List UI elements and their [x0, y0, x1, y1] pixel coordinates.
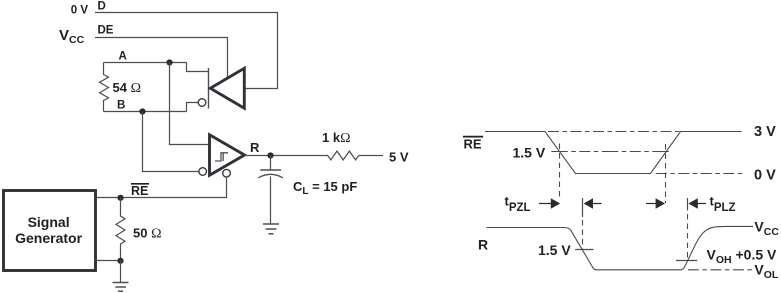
svg-text:DE: DE — [98, 25, 114, 37]
wire generator top output — [95, 197, 121, 199]
svg-text:0 V: 0 V — [754, 168, 776, 184]
arrow left at R fall — [584, 198, 593, 209]
waveform R — [487, 226, 754, 269]
svg-text:tPLZ: tPLZ — [710, 193, 736, 214]
junction dot on B — [139, 108, 145, 114]
driver output bar — [208, 68, 210, 109]
dashed vertical at RE rise crossing — [665, 144, 667, 203]
svg-text:1.5 V: 1.5 V — [538, 242, 571, 258]
junction dot R node — [267, 152, 273, 158]
junction dot ground node — [117, 258, 123, 264]
svg-text:VOL: VOL — [754, 262, 779, 282]
svg-text:RE: RE — [131, 184, 148, 198]
junction dot on A — [166, 59, 172, 65]
svg-text:3 V: 3 V — [754, 124, 776, 140]
wire driver output A stub — [187, 63, 209, 72]
svg-text:CL = 15 pF: CL = 15 pF — [293, 179, 357, 197]
svg-text:RE: RE — [464, 136, 482, 151]
capacitor CL bottom lead — [270, 177, 272, 225]
driver inverted output bubble — [198, 99, 206, 107]
receiver U2 triangle — [210, 135, 245, 175]
wire RE to enable — [121, 177, 227, 198]
level line 0V dash-dot — [656, 173, 744, 175]
svg-text:5 V: 5 V — [389, 150, 409, 165]
bar at R rise + arrow left + label tPLZ — [687, 198, 689, 211]
level line 3V dash-dot — [548, 131, 683, 133]
ground at generator — [120, 261, 122, 283]
dash-dot vertical at R rise crossing — [687, 214, 689, 261]
hysteresis symbol — [215, 153, 228, 161]
wire receiver output — [245, 155, 329, 157]
bar + dashed vertical at R fall crossing — [582, 198, 584, 217]
svg-text:VCC: VCC — [59, 27, 85, 46]
resistor 54 ohm — [100, 63, 109, 112]
svg-text:1.5 V: 1.5 V — [513, 145, 546, 161]
wire B — [104, 111, 187, 113]
svg-text:tPZL: tPZL — [505, 193, 531, 214]
svg-text:R: R — [250, 140, 260, 155]
waveform RE — [485, 132, 742, 174]
wire DE — [95, 38, 228, 78]
driver U1 triangle — [210, 68, 244, 108]
wire A to receiver input — [170, 63, 209, 145]
svg-text:Generator: Generator — [15, 230, 82, 246]
wire generator bottom output — [95, 260, 121, 262]
capacitor CL bottom plate — [258, 174, 283, 178]
svg-text:0 V: 0 V — [71, 5, 89, 17]
wire driver output B stub — [187, 103, 199, 112]
svg-text:R: R — [478, 237, 488, 253]
svg-text:1 kΩ: 1 kΩ — [322, 130, 350, 146]
receiver inverting input bubble — [199, 168, 207, 176]
svg-text:VOH +0.5 V: VOH +0.5 V — [707, 247, 778, 267]
wire B to receiver inverting input — [143, 112, 199, 172]
signal generator SG1 box — [4, 191, 96, 271]
svg-text:54 Ω: 54 Ω — [113, 80, 141, 96]
tick VOH+0.5 on R rise — [676, 260, 697, 262]
capacitor CL lead — [270, 156, 272, 171]
resistor 1k — [328, 151, 359, 160]
tick 1.5V on R fall — [575, 249, 593, 251]
resistor 50 ohm — [116, 198, 125, 261]
svg-text:D: D — [98, 1, 106, 13]
svg-text:VCC: VCC — [754, 219, 779, 239]
wire to 5V — [359, 155, 383, 157]
svg-text:B: B — [117, 100, 125, 112]
wire D — [95, 13, 278, 89]
capacitor CL top plate — [260, 169, 281, 171]
junction dot RE node — [117, 195, 123, 201]
level line VOL dash-dot — [688, 269, 753, 271]
receiver enable bubble — [223, 169, 231, 177]
arrow right at RE rise — [646, 203, 656, 205]
dashed vertical at RE fall crossing — [559, 144, 561, 199]
svg-text:A: A — [119, 51, 127, 63]
wire A — [104, 62, 187, 64]
ground at capacitor — [263, 224, 279, 234]
svg-text:Signal: Signal — [28, 214, 70, 230]
level line 1.5V dash-dot — [551, 151, 672, 153]
svg-text:50 Ω: 50 Ω — [133, 226, 161, 242]
arrow tPZL right — [539, 203, 552, 205]
